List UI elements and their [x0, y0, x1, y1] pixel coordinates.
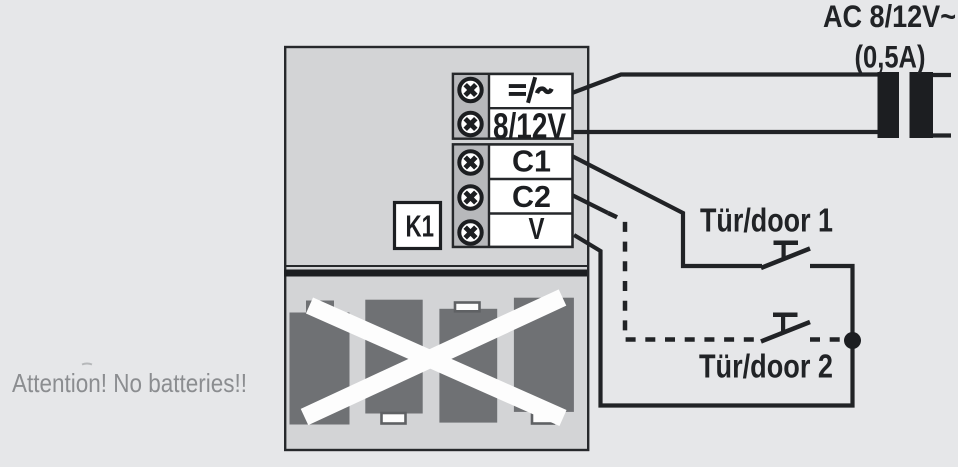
switch S2 lever [761, 322, 810, 342]
svg-text:Tür/door 2: Tür/door 2 [699, 349, 833, 386]
switch S1 actuator [774, 241, 799, 260]
svg-text:8/12V: 8/12V [493, 106, 566, 147]
switch S1 lever [761, 249, 810, 269]
main unit box [285, 47, 588, 450]
no-batteries cross stroke 1 [310, 306, 564, 419]
transformer plug symbol [878, 72, 952, 138]
screw terminal V [459, 221, 481, 243]
svg-text:K1: K1 [406, 209, 435, 244]
screw terminal =/~ [459, 79, 481, 101]
battery B3 [439, 303, 497, 423]
terminal block lower group [453, 144, 573, 247]
svg-text:(0,5A): (0,5A) [855, 39, 926, 75]
terminal block upper group [453, 73, 573, 139]
screw terminal C2 [459, 186, 481, 208]
svg-text:V: V [529, 212, 546, 246]
wire S1 to junction [810, 266, 853, 341]
wire C1 to switch S1 [572, 156, 762, 266]
screw terminal 8/12V [459, 113, 481, 135]
compartment separator thick bar [284, 270, 587, 277]
label =/~ [509, 77, 552, 103]
wire V return [574, 235, 853, 406]
screw terminal C1 [459, 151, 481, 173]
wire 8/12V to transformer [572, 130, 880, 134]
dashed wire S2 to junction [810, 337, 845, 342]
battery B1 [290, 301, 350, 425]
svg-text:C2: C2 [512, 180, 551, 214]
svg-text:C1: C1 [512, 145, 551, 179]
battery B2 [365, 300, 422, 424]
switch S2 actuator [773, 313, 798, 332]
svg-text:Tür/door 1: Tür/door 1 [700, 203, 833, 240]
junction dot [844, 332, 861, 349]
wire =/~ to transformer [572, 75, 880, 94]
wire C2 solid stub [572, 195, 608, 213]
battery B4 [514, 298, 574, 424]
svg-text:Attention! No batteries!!: Attention! No batteries!! [12, 370, 247, 398]
no-batteries cross stroke 2 [305, 298, 563, 418]
stray scan mark [82, 364, 92, 365]
K1 relay box [395, 203, 441, 249]
svg-text:AC 8/12V~: AC 8/12V~ [823, 0, 956, 34]
wire C2 to switch S2 dashed [608, 213, 761, 340]
compartment separator thin line [284, 265, 587, 267]
